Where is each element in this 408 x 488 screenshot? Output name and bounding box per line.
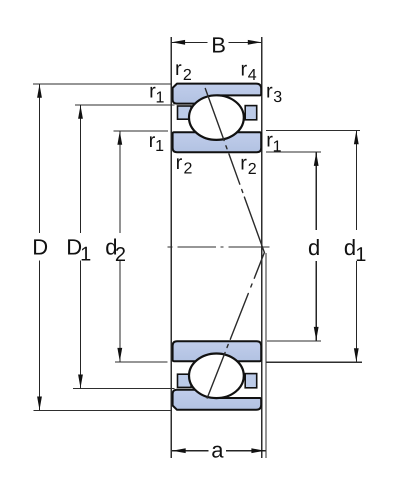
svg-text:2: 2 (184, 161, 193, 178)
svg-text:1: 1 (355, 244, 366, 266)
svg-text:d: d (308, 235, 320, 260)
svg-text:r: r (266, 81, 273, 103)
svg-text:2: 2 (183, 67, 192, 84)
svg-text:4: 4 (248, 67, 257, 84)
svg-text:2: 2 (115, 244, 126, 266)
svg-text:a: a (211, 437, 224, 462)
svg-text:1: 1 (155, 138, 164, 155)
svg-text:1: 1 (80, 244, 91, 266)
svg-text:r: r (241, 58, 248, 80)
svg-text:r: r (175, 58, 182, 80)
svg-text:r: r (176, 152, 183, 174)
svg-text:3: 3 (273, 89, 282, 106)
svg-text:2: 2 (248, 161, 257, 178)
svg-text:1: 1 (156, 90, 165, 107)
svg-text:r: r (240, 152, 247, 174)
svg-text:D: D (32, 235, 48, 260)
svg-text:B: B (211, 33, 226, 58)
svg-text:1: 1 (273, 138, 282, 155)
